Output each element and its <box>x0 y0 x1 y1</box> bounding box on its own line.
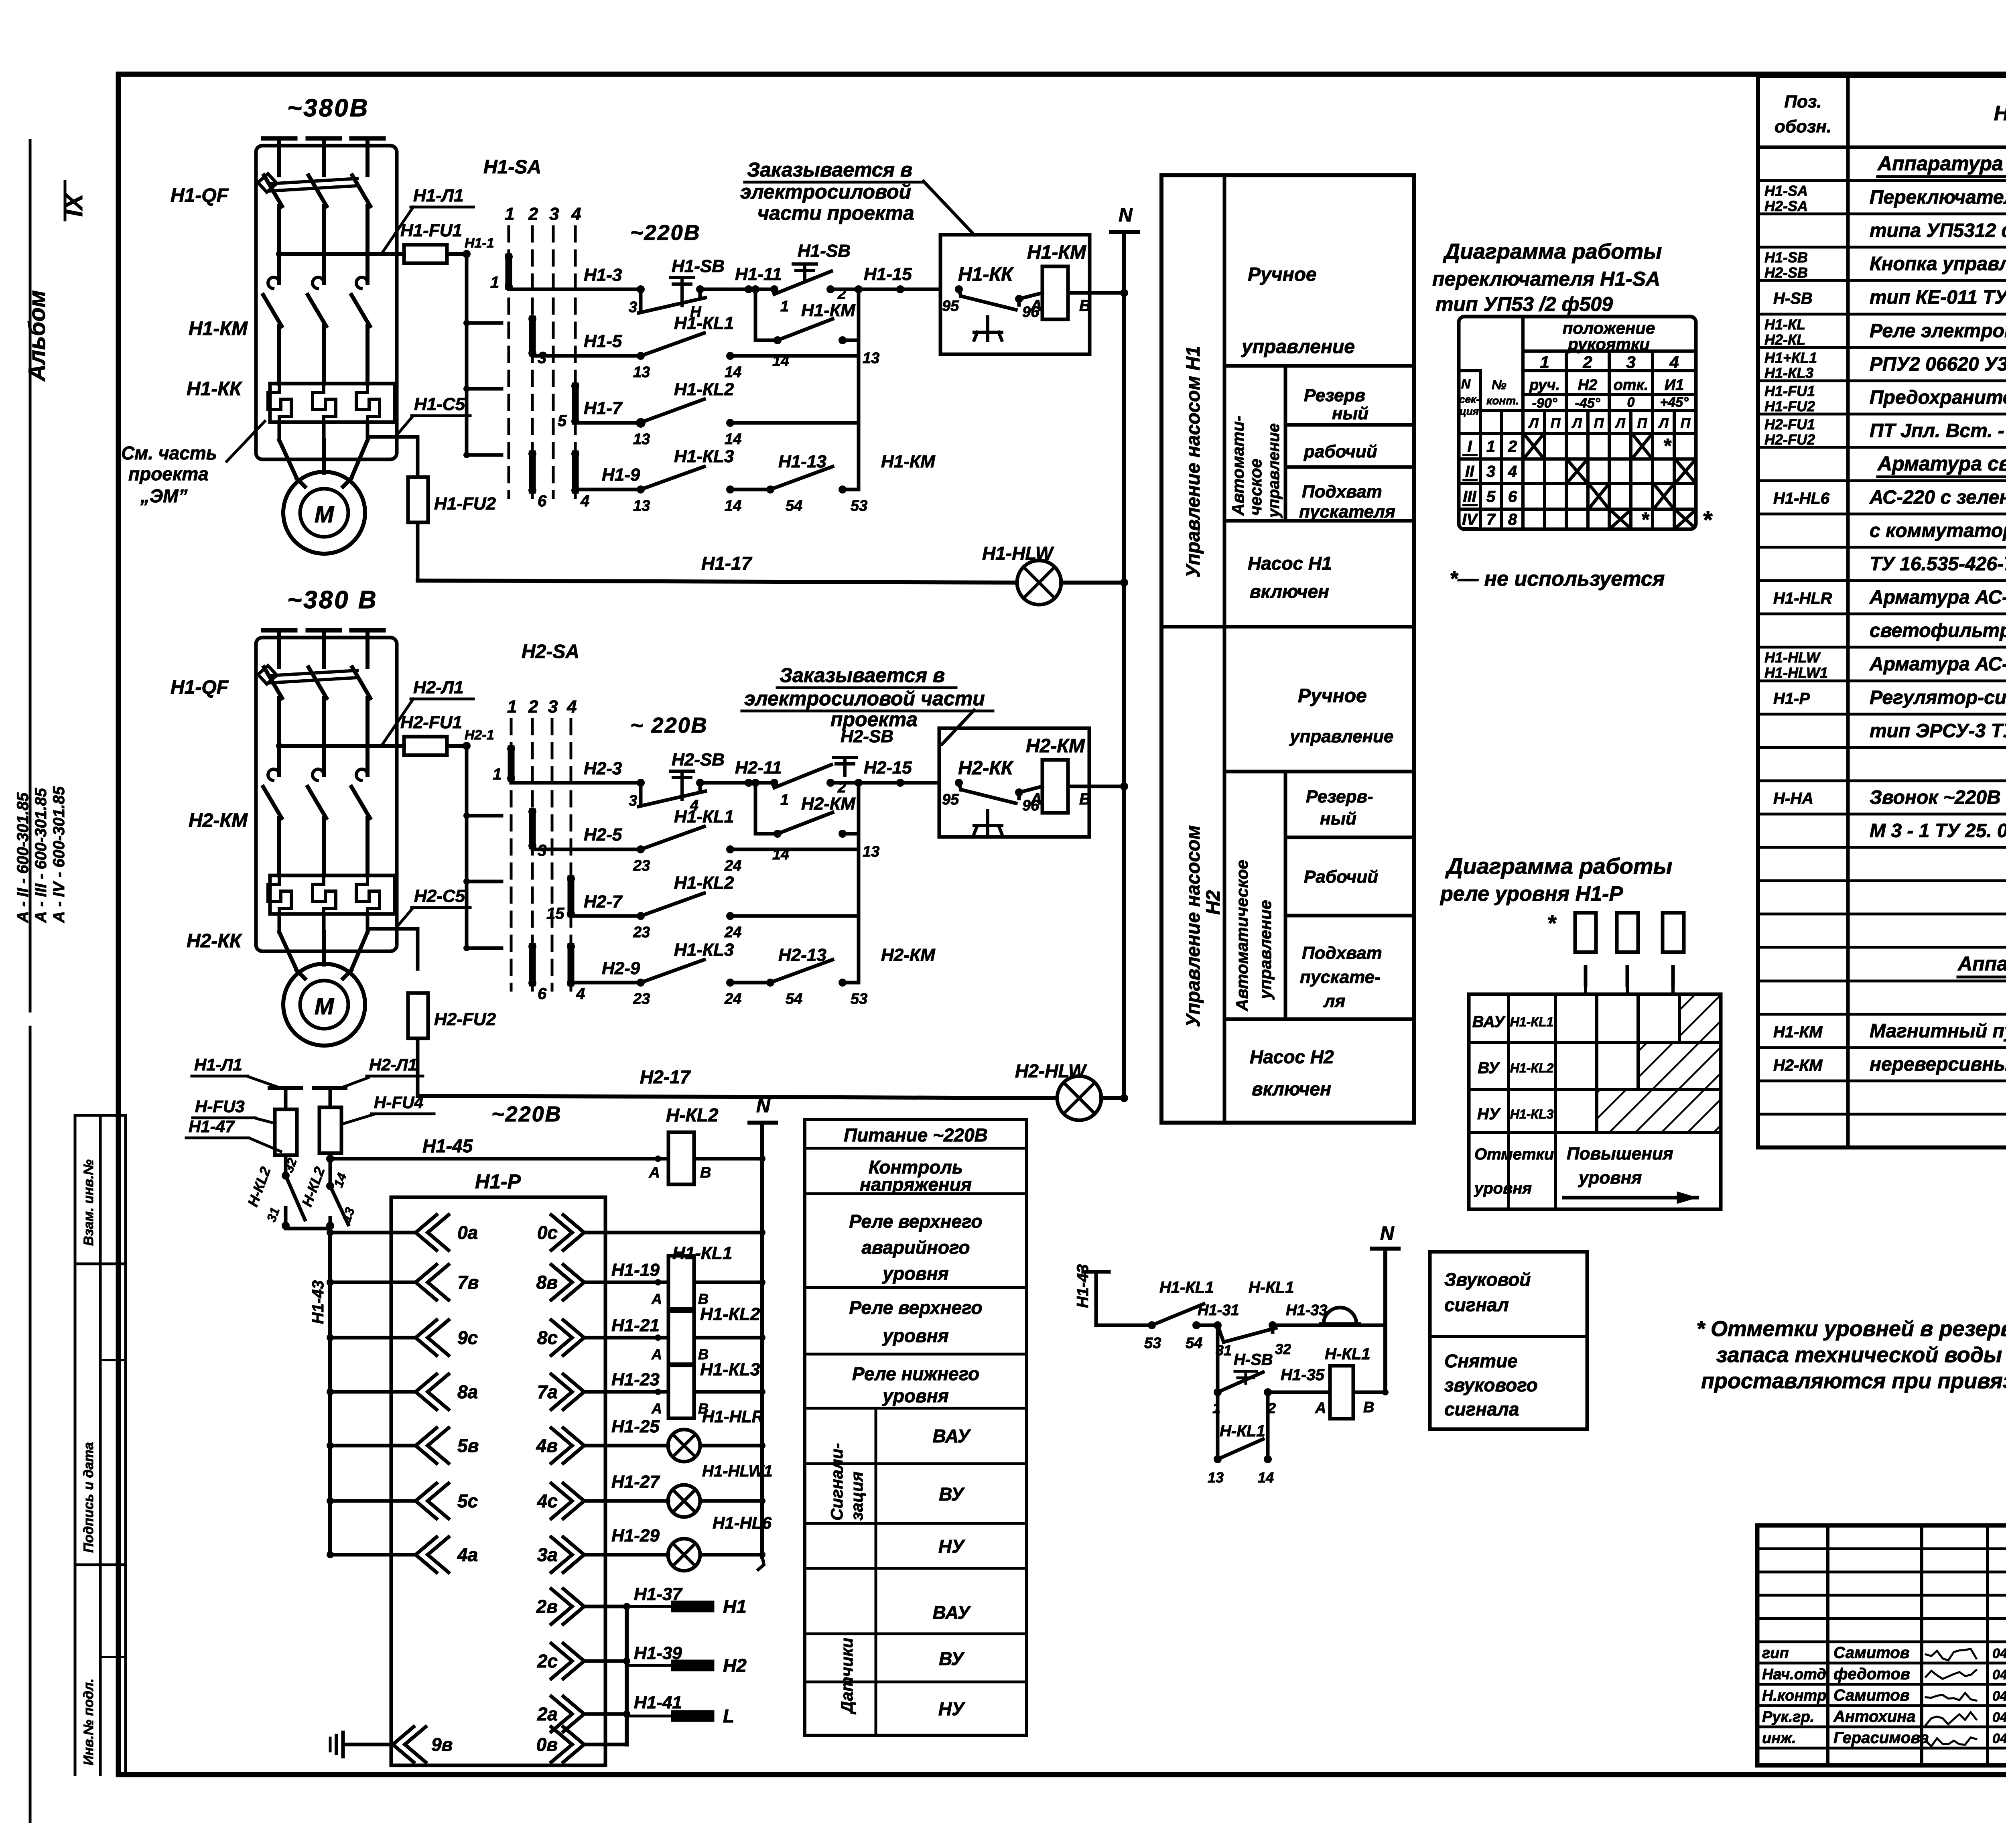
svg-text:04.84: 04.84 <box>1992 1646 2006 1661</box>
svg-text:уровня: уровня <box>882 1325 948 1346</box>
svg-text:ВАУ: ВАУ <box>933 1426 972 1446</box>
svg-text:14: 14 <box>725 364 741 381</box>
SA closed contact line2 pos6 <box>529 454 536 490</box>
svg-text:1: 1 <box>507 697 517 717</box>
svg-text:Н1-КL3: Н1-КL3 <box>1764 365 1813 381</box>
svg-text:4: 4 <box>1508 463 1517 481</box>
svg-text:электросиловой части: электросиловой части <box>744 687 985 710</box>
svg-text:М: М <box>315 502 335 528</box>
svg-text:Кнопка управления исп. 2: Кнопка управления исп. 2 <box>1870 254 2006 275</box>
svg-text:~ 220В: ~ 220В <box>630 713 708 737</box>
output chevron 2а <box>563 1696 584 1732</box>
svg-text:0в: 0в <box>536 1734 558 1755</box>
svg-text:Н1-НL6: Н1-НL6 <box>1773 490 1830 508</box>
svg-text:13: 13 <box>633 364 650 381</box>
svg-text:0с: 0с <box>537 1222 558 1243</box>
svg-text:23: 23 <box>633 924 650 941</box>
svg-text:7а: 7а <box>537 1381 558 1402</box>
svg-text:5в: 5в <box>457 1435 479 1456</box>
svg-text:ля: ля <box>1323 991 1345 1011</box>
svg-text:13: 13 <box>863 350 879 367</box>
svg-text:Н1-QF: Н1-QF <box>171 677 229 698</box>
svg-text:24: 24 <box>724 991 741 1007</box>
thermal unit box H2-KK / coil H2-KM <box>939 728 1089 837</box>
function band table <box>1161 175 1414 1123</box>
svg-text:электросиловой: электросиловой <box>740 181 911 203</box>
svg-text:Диаграмма работы: Диаграмма работы <box>1445 853 1672 879</box>
svg-text:1: 1 <box>493 766 501 783</box>
svg-text:Н1-КL3: Н1-КL3 <box>674 447 734 466</box>
output chevron 0с <box>563 1215 584 1250</box>
input chevron 9с <box>416 1320 437 1355</box>
sensor drop lines <box>1584 985 1587 994</box>
svg-text:04.84: 04.84 <box>1992 1689 2006 1704</box>
svg-text:инж.: инж. <box>1762 1730 1796 1747</box>
svg-text:Н2-1: Н2-1 <box>465 727 494 743</box>
svg-text:Заказывается в: Заказывается в <box>747 158 912 181</box>
wire to coil A H2 <box>1019 786 1042 792</box>
svg-text:Н2-Л1: Н2-Л1 <box>413 678 464 697</box>
svg-text:Н1-13: Н1-13 <box>778 452 826 471</box>
svg-text:Н2-КL: Н2-КL <box>1764 331 1805 348</box>
fuse H1-FU2 <box>408 477 428 522</box>
svg-text:Н1-SA: Н1-SA <box>483 156 541 178</box>
sheet edge line <box>29 140 32 1011</box>
svg-text:Н1-FU1: Н1-FU1 <box>400 221 462 240</box>
sensor link bus <box>625 1606 629 1744</box>
cell automatic control H2 <box>1284 772 1287 1019</box>
wire 0v link <box>584 1743 627 1746</box>
svg-text:А: А <box>651 1291 662 1307</box>
svg-text:А: А <box>651 1400 662 1417</box>
svg-text:~220В: ~220В <box>491 1102 562 1126</box>
fuse H-FU4 <box>319 1107 341 1153</box>
svg-text:Герасимова: Герасимова <box>1833 1729 1929 1747</box>
svg-text:Повышения: Повышения <box>1567 1144 1673 1164</box>
svg-text:Н1-КL1: Н1-КL1 <box>672 1243 732 1263</box>
svg-text:13: 13 <box>863 843 879 860</box>
svg-text:2а: 2а <box>537 1704 558 1724</box>
svg-text:Н2: Н2 <box>1203 890 1224 915</box>
svg-text:сек-: сек- <box>1459 393 1480 405</box>
svg-text:Н2-FU2: Н2-FU2 <box>434 1009 496 1029</box>
svg-text:Н1-43: Н1-43 <box>309 1280 327 1324</box>
output chevron 2в <box>563 1589 584 1624</box>
svg-text:Н1-НLW: Н1-НLW <box>1764 649 1821 666</box>
svg-text:Н1-SB: Н1-SB <box>798 241 851 261</box>
svg-text:24: 24 <box>724 924 741 941</box>
svg-text:А - II - 600-301.85: А - II - 600-301.85 <box>14 792 32 923</box>
svg-text:Взам. инв.№: Взам. инв.№ <box>81 1160 96 1246</box>
wire H2-11 <box>700 781 776 785</box>
svg-text:Н1-SA: Н1-SA <box>1764 183 1808 199</box>
svg-text:Н2-КМ: Н2-КМ <box>189 810 248 831</box>
svg-text:ческое: ческое <box>1246 459 1265 516</box>
svg-text:4в: 4в <box>536 1435 558 1456</box>
svg-text:А: А <box>1030 297 1042 315</box>
svg-text:Н1-21: Н1-21 <box>611 1316 660 1335</box>
svg-text:04.84: 04.84 <box>1992 1710 2006 1725</box>
svg-text:Н1-19: Н1-19 <box>611 1260 660 1280</box>
svg-text:Наименование: Наименование <box>1994 102 2006 125</box>
svg-text:2: 2 <box>1508 438 1517 455</box>
svg-text:Н2-КК: Н2-КК <box>187 930 243 952</box>
svg-text:П: П <box>1637 416 1648 431</box>
svg-text:НУ: НУ <box>938 1536 966 1557</box>
svg-text:запаса технической воды: запаса технической воды <box>1716 1343 2002 1367</box>
svg-text:включен: включен <box>1250 581 1329 602</box>
svg-text:пускате-: пускате- <box>1300 967 1381 987</box>
svg-text:напряжения: напряжения <box>860 1174 972 1195</box>
svg-text:Н2-КК: Н2-КК <box>958 757 1014 779</box>
svg-text:Н1-КМ: Н1-КМ <box>801 301 856 320</box>
svg-text:Н1-КL3: Н1-КL3 <box>674 940 734 960</box>
node H1-31 <box>1214 1321 1222 1329</box>
bus from node H2-1 <box>465 746 469 948</box>
svg-text:тип ЭРСУ-3 ТУ 25. 02 080-: тип ЭРСУ-3 ТУ 25. 02 080-678-76 <box>1870 721 2006 742</box>
output chevron 0в <box>563 1727 584 1762</box>
svg-text:уровня: уровня <box>1578 1168 1642 1188</box>
svg-text:Насос Н2: Насос Н2 <box>1250 1046 1334 1067</box>
svg-text:13: 13 <box>633 431 650 448</box>
svg-text:* Отметки уровней в резерву: * Отметки уровней в резервуаре <box>1696 1317 2006 1341</box>
svg-text:тип КЕ-011 ТУ16.526. 407-: тип КЕ-011 ТУ16.526. 407-79 <box>1870 287 2006 308</box>
svg-text:1: 1 <box>1486 438 1495 455</box>
svg-text:Н1-НLR: Н1-НLR <box>1773 590 1832 607</box>
svg-text:54: 54 <box>786 498 802 514</box>
svg-text:8: 8 <box>1508 511 1517 528</box>
svg-text:2: 2 <box>528 697 538 717</box>
svg-text:Н1-КМ: Н1-КМ <box>189 318 248 339</box>
svg-text:Звонок ~220В f = 50 Гц: Звонок ~220В f = 50 Гц <box>1870 787 2006 808</box>
svg-text:Н1-23: Н1-23 <box>611 1370 660 1389</box>
svg-text:Н2-9: Н2-9 <box>602 959 640 978</box>
svg-text:Н1-КL1: Н1-КL1 <box>1510 1015 1554 1029</box>
svg-text:7в: 7в <box>457 1272 479 1293</box>
svg-text:ТУ 16.535-426-70: ТУ 16.535-426-70 <box>1870 554 2006 575</box>
wire to coil A <box>1019 293 1042 299</box>
svg-text:Н1-FU2: Н1-FU2 <box>1764 398 1815 414</box>
svg-text:Н2-SB: Н2-SB <box>672 750 725 770</box>
svg-text:0: 0 <box>1627 395 1635 410</box>
svg-text:В: В <box>1079 790 1091 808</box>
svg-text:типа УП5312 ф509 ТУ 16.52: типа УП5312 ф509 ТУ 16.524.074-75 <box>1870 220 2006 242</box>
svg-text:части проекта: части проекта <box>757 202 914 224</box>
svg-text:3: 3 <box>1626 353 1635 372</box>
svg-text:Сигнали-: Сигнали- <box>827 1443 846 1521</box>
title block <box>1757 1525 2006 1765</box>
svg-text:Ручное: Ручное <box>1298 685 1367 707</box>
svg-text:1: 1 <box>505 204 514 224</box>
switch diagram X marks <box>1525 436 1542 457</box>
wire to H2-15 <box>830 781 939 785</box>
svg-text:6: 6 <box>1508 488 1517 506</box>
svg-text:Н2-КМ: Н2-КМ <box>1773 1057 1823 1074</box>
svg-text:2в: 2в <box>536 1596 558 1617</box>
svg-text:14: 14 <box>725 498 741 514</box>
svg-text:32: 32 <box>1275 1341 1291 1357</box>
svg-text:Н2-7: Н2-7 <box>584 892 623 912</box>
svg-text:Питание ~220В: Питание ~220В <box>844 1125 988 1145</box>
thermal contact 95-96 <box>955 285 963 293</box>
input chevron 8а <box>416 1374 437 1409</box>
svg-text:4а: 4а <box>457 1544 478 1565</box>
svg-text:9в: 9в <box>431 1734 453 1755</box>
svg-text:5: 5 <box>558 412 567 430</box>
svg-text:федотов: федотов <box>1833 1665 1910 1683</box>
svg-text:обозн.: обозн. <box>1775 117 1831 136</box>
svg-text:Управление насосом Н1: Управление насосом Н1 <box>1183 346 1204 578</box>
svg-text:Н2-FU2: Н2-FU2 <box>1764 431 1815 448</box>
svg-text:Н1-33: Н1-33 <box>1286 1302 1328 1319</box>
output chevron 4в <box>563 1428 584 1463</box>
svg-text:Реле электромагнитное ~ 220В: Реле электромагнитное ~ 220В <box>1870 321 2006 342</box>
svg-text:проставляются при привязке: проставляются при привязке проекта. <box>1701 1369 2006 1393</box>
svg-text:Н1-НL6: Н1-НL6 <box>713 1513 772 1532</box>
svg-text:1: 1 <box>1540 353 1549 372</box>
svg-text:Н1-КМ: Н1-КМ <box>1773 1024 1823 1041</box>
svg-text:4: 4 <box>566 697 577 717</box>
wire C5 tap Н2 <box>367 929 418 969</box>
svg-text:А - III - 600-301.85: А - III - 600-301.85 <box>32 788 50 923</box>
svg-text:Арматура АС-220 с молочны св: Арматура АС-220 с молочны светофильтром <box>1869 654 2006 675</box>
svg-text:Л: Л <box>1658 416 1669 431</box>
svg-text:НУ: НУ <box>1477 1105 1501 1123</box>
svg-text:В: В <box>700 1164 711 1181</box>
svg-text:отк.: отк. <box>1614 377 1649 394</box>
svg-text:Л: Л <box>1528 416 1539 431</box>
svg-text:Н1-15: Н1-15 <box>864 264 912 284</box>
svg-text:М 3 - 1 ТУ 25. 05. 1045-7: М 3 - 1 ТУ 25. 05. 1045-76 <box>1870 820 2006 842</box>
BOM parts table <box>1758 76 2006 1147</box>
svg-text:Снятие: Снятие <box>1444 1350 1518 1371</box>
terminal T2 common <box>314 1086 345 1090</box>
svg-text:Предохранитель трубчатый: Предохранитель трубчатый <box>1870 387 2006 408</box>
svg-text:Н1-27: Н1-27 <box>611 1472 660 1492</box>
svg-text:проекта: проекта <box>128 463 209 484</box>
svg-text:~380 В: ~380 В <box>287 586 378 614</box>
output chevron 8с <box>563 1320 584 1355</box>
svg-text:Подпись и дата: Подпись и дата <box>81 1442 96 1553</box>
svg-text:53: 53 <box>1144 1335 1161 1352</box>
svg-text:проекта: проекта <box>830 708 918 731</box>
svg-text:I: I <box>1467 438 1472 455</box>
svg-text:Н1-С5: Н1-С5 <box>414 394 465 414</box>
svg-text:Н-FU4: Н-FU4 <box>374 1093 424 1112</box>
wire L1 to fuse Н2-FU1 <box>279 744 404 748</box>
thermal unit box H1-KK / coil H1-KM <box>940 235 1090 354</box>
svg-text:53: 53 <box>851 991 867 1007</box>
node Н2-1 <box>463 742 471 750</box>
svg-text:4с: 4с <box>537 1491 558 1511</box>
fuse H-FU3 <box>275 1109 297 1155</box>
svg-text:Н2-SA: Н2-SA <box>522 641 579 662</box>
svg-text:ный: ный <box>1332 404 1368 423</box>
svg-text:тип УП53 /2 ф509: тип УП53 /2 ф509 <box>1435 293 1613 315</box>
svg-text:Н1-КL1: Н1-КL1 <box>674 313 734 333</box>
svg-text:+45°: +45° <box>1660 395 1689 410</box>
motor M Н2 <box>279 932 297 971</box>
svg-text:14: 14 <box>1258 1469 1274 1486</box>
svg-text:Аппаратура по месту: Аппаратура по месту <box>1957 952 2006 975</box>
svg-text:Арматура АС-220 с красным: Арматура АС-220 с красным <box>1869 587 2006 608</box>
input chevron 7в <box>416 1265 437 1300</box>
svg-text:1: 1 <box>490 274 499 291</box>
svg-text:2: 2 <box>528 204 538 224</box>
svg-text:Н2: Н2 <box>723 1655 747 1676</box>
svg-text:Ручное: Ручное <box>1248 264 1317 285</box>
contact H2-KM holding branch <box>754 783 757 834</box>
svg-text:рабочий: рабочий <box>1303 442 1377 461</box>
svg-text:пускателя: пускателя <box>1299 502 1395 522</box>
svg-text:ВАУ: ВАУ <box>1472 1013 1506 1031</box>
output chevron 2с <box>563 1643 584 1679</box>
svg-text:Н2-FU1: Н2-FU1 <box>400 713 462 732</box>
relay diagram table <box>1469 994 1721 1209</box>
svg-text:3: 3 <box>549 204 559 224</box>
svg-text:*: * <box>1663 435 1672 457</box>
svg-text:Н2-15: Н2-15 <box>864 758 912 778</box>
svg-text:Антохина: Антохина <box>1833 1708 1916 1726</box>
coil H1-KM <box>1042 266 1068 319</box>
svg-text:В: В <box>1079 297 1091 315</box>
svg-text:Н.контр.: Н.контр. <box>1762 1688 1831 1704</box>
hatched level cells <box>1679 994 1721 1042</box>
svg-text:L: L <box>723 1706 734 1726</box>
svg-text:*: * <box>1702 506 1713 533</box>
svg-text:Н2-SB: Н2-SB <box>1764 264 1808 281</box>
svg-text:Н1-КМ: Н1-КМ <box>881 452 936 471</box>
svg-text:*: * <box>1641 508 1650 531</box>
svg-text:54: 54 <box>786 991 802 1007</box>
svg-text:13: 13 <box>633 498 650 514</box>
svg-text:Резерв: Резерв <box>1304 386 1365 405</box>
svg-text:9с: 9с <box>457 1327 478 1348</box>
svg-text:ция: ция <box>1460 405 1479 417</box>
svg-text:8в: 8в <box>536 1272 558 1293</box>
svg-text:Н-НА: Н-НА <box>1773 790 1813 808</box>
wire to H1-15 <box>830 288 940 291</box>
svg-text:Н1-КL1: Н1-КL1 <box>1159 1279 1214 1296</box>
title block left grid <box>1826 1525 1829 1765</box>
svg-text:Инв.№ подл.: Инв.№ подл. <box>81 1678 96 1765</box>
svg-text:Н2-17: Н2-17 <box>640 1066 691 1087</box>
svg-text:„ЭМ”: „ЭМ” <box>140 485 187 506</box>
svg-text:III: III <box>1463 488 1476 506</box>
svg-text:Н1-КL2: Н1-КL2 <box>674 873 734 893</box>
svg-text:Н1-11: Н1-11 <box>735 264 782 284</box>
svg-text:Н-КL1: Н-КL1 <box>1249 1279 1294 1296</box>
svg-text:М: М <box>315 993 335 1019</box>
svg-text:Л: Л <box>1614 416 1625 431</box>
svg-text:Н1-31: Н1-31 <box>1198 1302 1239 1319</box>
svg-text:Н1-НLW1: Н1-НLW1 <box>1764 664 1828 681</box>
svg-text:Арматура светосигнальная: Арматура светосигнальная <box>1877 453 2006 475</box>
svg-text:Н1-КL1: Н1-КL1 <box>674 807 734 827</box>
svg-text:ВУ: ВУ <box>1478 1059 1500 1077</box>
svg-text:Реле верхнего: Реле верхнего <box>849 1211 982 1232</box>
svg-text:3: 3 <box>629 792 637 809</box>
svg-text:зация: зация <box>847 1472 866 1521</box>
svg-text:Н1-КL2: Н1-КL2 <box>700 1304 760 1324</box>
wire L1 to fuse Н1-FU1 <box>279 252 404 256</box>
svg-text:Н-КL1: Н-КL1 <box>1220 1422 1265 1440</box>
svg-text:ПТ Jпл. Вст. - 1А ТУ 36.: ПТ Jпл. Вст. - 1А ТУ 36. 1101-71 <box>1870 420 2006 442</box>
svg-text:Н1-FU1: Н1-FU1 <box>1764 383 1815 399</box>
ground symbol <box>343 1743 393 1746</box>
contactor KM poles Н1 <box>268 277 279 288</box>
SA closed contact H2 line4 pos4 <box>568 946 575 983</box>
svg-text:Н1-45: Н1-45 <box>422 1135 473 1156</box>
svg-text:Н1-HLW1: Н1-HLW1 <box>702 1462 773 1480</box>
SA closed contact H2 line4 pos15 <box>568 879 575 914</box>
svg-text:уровня: уровня <box>882 1385 948 1406</box>
terminals 3-phase Н2 <box>263 628 295 633</box>
svg-text:реле уровня Н1-Р: реле уровня Н1-Р <box>1440 882 1623 906</box>
svg-text:-90°: -90° <box>1532 396 1557 411</box>
svg-text:Н1-1: Н1-1 <box>465 236 494 251</box>
contact H1-KM holding branch <box>754 289 757 340</box>
thermal contact 95-96 H2 <box>955 779 963 787</box>
svg-text:23: 23 <box>633 857 650 874</box>
svg-text:Н1-КL2: Н1-КL2 <box>674 380 734 399</box>
svg-text:Автомати-: Автомати- <box>1228 416 1247 516</box>
svg-text:6: 6 <box>538 985 547 1003</box>
svg-text:2: 2 <box>837 779 846 796</box>
svg-text:Н2: Н2 <box>1578 377 1598 394</box>
svg-text:аварийного: аварийного <box>861 1237 970 1258</box>
svg-text:04.84: 04.84 <box>1992 1731 2006 1746</box>
svg-text:~220В: ~220В <box>630 221 701 245</box>
svg-text:управление: управление <box>1265 423 1283 518</box>
svg-text:2с: 2с <box>537 1651 558 1671</box>
caption table power/levels <box>805 1119 1027 1735</box>
svg-text:04.84: 04.84 <box>1992 1667 2006 1683</box>
svg-text:Н2-5: Н2-5 <box>584 825 622 845</box>
svg-text:5: 5 <box>1486 488 1496 506</box>
wire C5 tap Н1 <box>367 437 418 477</box>
svg-text:АС-220 с зеленым светофильтр: АС-220 с зеленым светофильтром <box>1869 487 2006 508</box>
svg-text:В: В <box>1363 1399 1374 1416</box>
svg-text:руч.: руч. <box>1529 377 1560 394</box>
svg-text:IV: IV <box>1462 511 1478 528</box>
svg-text:-45°: -45° <box>1575 396 1600 411</box>
svg-text:Н1-7: Н1-7 <box>584 398 623 418</box>
svg-text:звукового: звукового <box>1444 1375 1538 1395</box>
svg-text:Аппаратура на щите ЩУН №1: Аппаратура на щите ЩУН №1 <box>1877 152 2006 175</box>
output chevron 7а <box>563 1374 584 1409</box>
svg-text:Н1-35: Н1-35 <box>1281 1366 1325 1384</box>
svg-text:светофильтром: светофильтром <box>1870 620 2006 642</box>
output chevron 4с <box>563 1483 584 1519</box>
SA closed contact line4 pos4 <box>572 454 579 490</box>
svg-text:Диаграмма работы: Диаграмма работы <box>1443 240 1662 264</box>
svg-text:Л: Л <box>1571 416 1582 431</box>
sound signal caption box <box>1430 1252 1587 1429</box>
breaker QF poles Н2 <box>264 667 282 698</box>
branch to H-SB <box>1216 1325 1220 1382</box>
SA closed contact line2 pos3 <box>529 319 536 353</box>
svg-text:Поз.: Поз. <box>1784 92 1821 112</box>
svg-text:Магнитный пускатель: Магнитный пускатель <box>1870 1021 2006 1042</box>
svg-text:2: 2 <box>837 286 846 303</box>
wire H1-11 <box>700 288 776 291</box>
terminals 3-phase Н1 <box>263 136 295 141</box>
svg-text:1: 1 <box>780 792 789 808</box>
svg-text:Альбом: Альбом <box>24 290 50 382</box>
svg-text:П: П <box>1551 416 1561 431</box>
svg-text:II: II <box>1465 463 1474 481</box>
